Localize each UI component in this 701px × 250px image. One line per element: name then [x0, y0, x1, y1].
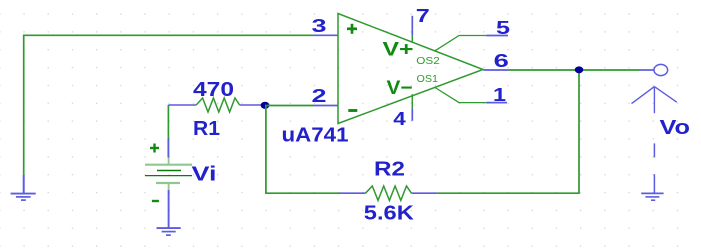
label OS1 [417, 73, 439, 85]
svg-text:2: 2 [312, 86, 327, 106]
Vo probe arrow [632, 87, 677, 114]
resistor R2 right pin lead [411, 192, 437, 194]
battery plus mark [150, 144, 159, 153]
label 5.6K (R2 value) [364, 203, 415, 225]
label R2 [374, 159, 405, 181]
svg-text:OS1: OS1 [417, 73, 439, 85]
resistor R1 right pin lead [240, 104, 265, 106]
Vo dashed reference line [653, 143, 655, 192]
svg-text:V+: V+ [383, 40, 414, 61]
svg-text:5: 5 [496, 18, 510, 38]
label 470 (R1 value) [193, 79, 234, 101]
svg-text:R1: R1 [193, 118, 220, 140]
svg-text:Vi: Vi [192, 164, 217, 186]
svg-text:5.6K: 5.6K [364, 203, 415, 225]
svg-text:1: 1 [493, 85, 506, 105]
svg-text:3: 3 [312, 16, 327, 36]
label V+ [383, 40, 414, 61]
op-amp U1 triangle body [338, 14, 483, 124]
svg-text:Vo: Vo [660, 117, 691, 139]
label R1 [193, 118, 220, 140]
ground symbol (under battery) [157, 228, 181, 235]
label Vi [192, 164, 217, 186]
pin number 5 [496, 18, 510, 38]
op-amp pin 2 lead [314, 105, 338, 107]
wire junction to op-amp pin 2 lead [265, 105, 314, 107]
battery Vi body [145, 158, 192, 191]
op-amp pin 4 lead (V- supply) [411, 94, 413, 121]
svg-text:4: 4 [393, 109, 406, 129]
battery Vi bottom pin lead [168, 190, 170, 228]
resistor R1 left pin lead [168, 104, 196, 106]
ground symbol (Vo reference) [641, 193, 663, 200]
ground symbol (left, input rail) [11, 175, 36, 200]
wire from pin 3 to left rail down to ground [24, 35, 314, 175]
wire R1 to battery Vi top [167, 105, 169, 139]
output terminal pin lead [640, 69, 654, 71]
svg-text:7: 7 [416, 6, 430, 26]
svg-text:R2: R2 [374, 159, 405, 181]
label OS2 [416, 55, 440, 67]
feedback wire: R2 right to output node [437, 70, 579, 193]
output terminal circle [654, 64, 668, 75]
svg-text:6: 6 [494, 51, 509, 71]
resistor R2 body (zigzag) [366, 186, 412, 200]
svg-text:uA741: uA741 [282, 125, 349, 147]
op-amp minus input mark [348, 109, 357, 112]
pin number 7 [416, 6, 430, 26]
label uA741 [282, 125, 349, 147]
pin number 2 [312, 86, 327, 106]
svg-text:470: 470 [193, 79, 234, 101]
op-amp pin 5 lead (OS2 offset null) [435, 36, 508, 51]
junction node at output / feedback [575, 66, 584, 73]
junction node at R1 / pin 2 / feedback [261, 102, 270, 109]
op-amp pin 1 lead (OS1 offset null) [435, 88, 507, 103]
label Vo [660, 117, 691, 139]
pin number 6 [494, 51, 509, 71]
battery Vi top pin lead [167, 139, 169, 158]
op-amp pin 7 lead (V+ supply) [411, 16, 413, 43]
pin number 4 [393, 109, 406, 129]
op-amp plus input mark [347, 24, 357, 34]
pin number 1 [493, 85, 506, 105]
battery minus mark [152, 200, 159, 202]
svg-text:V−: V− [387, 78, 413, 99]
resistor R2 left pin lead [340, 192, 366, 194]
op-amp pin 3 lead [314, 34, 338, 36]
resistor R1 body (zigzag) [196, 98, 239, 112]
pin number 3 [312, 16, 327, 36]
label V- [387, 78, 413, 99]
op-amp pin 6 output lead [484, 69, 509, 71]
feedback wire: junction down, along bottom to R2 left [266, 106, 340, 194]
svg-text:OS2: OS2 [416, 55, 440, 67]
wire pin 6 to output terminal [509, 69, 641, 71]
